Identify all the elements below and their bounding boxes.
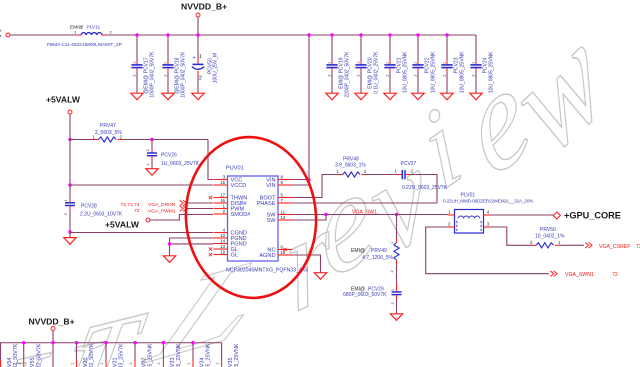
wire PGND pins tie (170, 238, 214, 244)
wire VCCD to +5VALW (70, 184, 213, 186)
svg-text:2: 2 (164, 75, 168, 77)
svg-text:2: 2 (133, 75, 137, 77)
ground of PGND (163, 256, 175, 263)
svg-text:PCV27: PCV27 (401, 161, 417, 167)
svg-text:13: 13 (220, 244, 225, 249)
wire PRV50 to VGA_CSREF (560, 244, 585, 246)
svg-text:3: 3 (223, 174, 226, 179)
svg-text:PLV11: PLV11 (87, 25, 101, 31)
capacitor PCV19 (326, 35, 350, 98)
svg-text:1: 1 (472, 62, 476, 64)
ground of PCV29 (390, 314, 402, 321)
capacitor PCV54 (cut off at bottom edge) (0, 343, 19, 367)
ground of PCV20 (355, 93, 367, 100)
junction at PCV26 (150, 138, 153, 141)
wire terminal to rail (197, 17, 199, 35)
svg-text:+: + (192, 55, 195, 61)
terminal +5VALW lower (146, 218, 150, 222)
capacitor PCV17 (131, 35, 155, 98)
svg-text:72: 72 (134, 208, 140, 214)
capacitor PCV33 (cut off at bottom edge) (157, 343, 182, 367)
capacitor PCV18 (162, 35, 186, 98)
svg-text:PCV30: PCV30 (83, 358, 89, 367)
svg-text:10_0402_1%: 10_0402_1% (535, 233, 565, 239)
svg-text:1: 1 (414, 62, 418, 64)
capacitor PCV34 (cut off at bottom edge) (187, 343, 212, 367)
svg-text:11: 11 (281, 209, 286, 214)
wire AGND to ground (293, 255, 321, 273)
terminal to off-page left (6, 33, 10, 37)
svg-text:8: 8 (281, 174, 284, 179)
svg-text:1: 1 (187, 363, 191, 365)
ground of PCV21 (384, 93, 396, 100)
svg-text:2.2U_0603_10V7K: 2.2U_0603_10V7K (80, 212, 123, 218)
junction at PCV17 (135, 33, 138, 36)
svg-text:PCV35: PCV35 (228, 358, 234, 367)
svg-text:PHASE: PHASE (257, 201, 276, 207)
ground of PCV26 (146, 169, 158, 176)
svg-text:1: 1 (443, 62, 447, 64)
capacitor PCV23 (441, 35, 465, 93)
svg-text:2: 2 (120, 135, 123, 140)
svg-text:4: 4 (487, 210, 490, 215)
svg-text:PCV33: PCV33 (170, 358, 176, 367)
wire NVVDD_B+ rail down to VIN pins (308, 35, 310, 185)
svg-text:SMOD#: SMOD# (231, 212, 252, 218)
annotation red ellipse around PUV01 (181, 133, 322, 303)
svg-text:SW: SW (266, 218, 276, 224)
svg-text:2: 2 (414, 75, 418, 77)
svg-text:1: 1 (215, 363, 219, 365)
svg-text:18: 18 (281, 250, 286, 255)
resistor PRV50 (530, 227, 565, 248)
inductor PLV11 (70, 25, 113, 36)
svg-text:12: 12 (281, 215, 286, 220)
ground of PCV22 (412, 93, 424, 100)
wire +5VALW down 2 (69, 140, 71, 186)
svg-text:2: 2 (530, 240, 533, 245)
svg-text:2: 2 (386, 75, 390, 77)
svg-text:PCV31: PCV31 (112, 358, 118, 367)
junction at PCV21 (388, 33, 391, 36)
wire PLV01 to +GPU_CORE (491, 214, 554, 216)
svg-text:10U_0805_25VNK: 10U_0805_25VNK (488, 51, 494, 93)
svg-text:3.9_0603_1%: 3.9_0603_1% (335, 163, 366, 169)
svg-text:10U_0805_25VNK: 10U_0805_25VNK (459, 51, 465, 93)
svg-text:VGA_PWM1: VGA_PWM1 (148, 208, 176, 214)
junction at NVVDD_B+ tap (196, 33, 199, 36)
svg-text:2: 2 (199, 76, 202, 82)
off-page connector VGA_CSREF (585, 243, 592, 249)
svg-text:9: 9 (281, 180, 284, 185)
terminal NVVDD_B+ bottom (51, 327, 55, 331)
svg-text:PUV01: PUV01 (226, 166, 244, 172)
svg-text:1: 1 (70, 363, 74, 365)
wire net VGA_SW1 (326, 214, 448, 216)
svg-text:10U_0805_25VNK: 10U_0805_25VNK (148, 343, 154, 367)
terminal NVVDD_B+ top (196, 13, 200, 17)
svg-text:1: 1 (157, 363, 161, 365)
junction PGND (168, 242, 171, 245)
junction at PCV31 (104, 341, 107, 344)
terminal +GPU_CORE (diamond) (553, 212, 560, 219)
svg-text:+5VALW: +5VALW (46, 95, 81, 105)
ground of PCV18 (162, 93, 174, 100)
junction at PCV18 (166, 33, 169, 36)
svg-text:10U_0805_25VNK: 10U_0805_25VNK (430, 51, 436, 93)
off-page connector VGA_SWN1 (550, 271, 557, 277)
junction at PCV55 (22, 341, 25, 344)
svg-text:1U_0603_25V7K: 1U_0603_25V7K (119, 343, 125, 367)
svg-text:1: 1 (328, 62, 332, 64)
svg-text:2_0603_5%: 2_0603_5% (95, 130, 122, 136)
wire PHASE (293, 202, 438, 204)
svg-text:72,73,74: 72,73,74 (120, 202, 139, 208)
svg-text:1: 1 (390, 242, 394, 244)
svg-text:NVVDD_B+: NVVDD_B+ (181, 2, 227, 12)
svg-text:17: 17 (220, 192, 225, 197)
svg-text:1: 1 (386, 62, 390, 64)
svg-text:1: 1 (133, 62, 137, 64)
wire rail drop at x53 (52, 343, 54, 367)
off-page connector VGA_DRON (180, 200, 187, 206)
svg-text:0.22UH_MMD-06DZER22MEM2L__32A_: 0.22UH_MMD-06DZER22MEM2L__32A_20% (443, 198, 533, 203)
capacitor PCV26 (146, 140, 200, 169)
op IC U1: regulator PUV01 NCP302045 (209, 166, 293, 262)
wire top NVVDD_B+ rail (106, 34, 476, 36)
junction at PCV30 (75, 341, 78, 344)
svg-text:2: 2 (357, 75, 361, 77)
wire BOOT to PRV48 (293, 175, 339, 198)
svg-text:VIN: VIN (266, 183, 275, 189)
svg-text:GL: GL (231, 253, 238, 259)
ground of PCV24 (470, 93, 482, 100)
svg-text:2: 2 (328, 75, 332, 77)
svg-text:1: 1 (558, 240, 561, 245)
svg-text:72: 72 (636, 244, 640, 250)
wire net VGA_SWN1 (426, 227, 549, 274)
capacitor PCV50 (polarized) (192, 35, 219, 93)
junction at PCV20 (359, 33, 362, 36)
svg-text:0.22U_0603_25V7K: 0.22U_0603_25V7K (402, 185, 448, 191)
svg-text:NCP302045MNTXG_PQFN33_4X5: NCP302045MNTXG_PQFN33_4X5 (226, 267, 308, 273)
resistor PRV47 (93, 123, 123, 142)
junction SW pins (324, 213, 327, 216)
capacitor PCV27 (395, 161, 448, 191)
svg-text:PCV26: PCV26 (161, 152, 177, 158)
svg-text:3: 3 (487, 222, 490, 227)
svg-text:16: 16 (220, 198, 225, 203)
wire CGND ground rail (70, 232, 213, 234)
svg-text:1: 1 (64, 199, 68, 201)
svg-text:1000P_0402_50V7K: 1000P_0402_50V7K (149, 51, 155, 98)
capacitor PCV29 (snubber) (343, 284, 401, 314)
svg-text:2: 2 (472, 75, 476, 77)
junction rail/VIN drop (307, 33, 310, 36)
wire VGA_PWM1 to PWM (187, 208, 214, 210)
wire +5VALW down (69, 114, 71, 139)
junction at PCV23 (445, 33, 448, 36)
svg-text:+5VALW: +5VALW (105, 219, 140, 229)
svg-text:10: 10 (220, 233, 225, 238)
svg-text:2: 2 (391, 302, 395, 304)
svg-text:15: 15 (220, 180, 225, 185)
svg-text:PCV54: PCV54 (7, 358, 13, 367)
capacitor PCV30 (cut off at bottom edge) (70, 343, 95, 367)
capacitor PCV22 (412, 35, 436, 93)
svg-text:1000P_0402_50V7K: 1000P_0402_50V7K (36, 343, 42, 367)
svg-text:VCCD: VCCD (231, 183, 247, 189)
junction ground rail / PCV28 (68, 230, 71, 233)
svg-text:2: 2 (110, 30, 113, 35)
svg-text:EMI@: EMI@ (70, 25, 84, 31)
svg-text:VGA_SW1: VGA_SW1 (352, 209, 377, 215)
junction at PCV19 (330, 33, 333, 36)
capacitor PCV28 (64, 185, 123, 232)
svg-text:1000P_0402_50V7K: 1000P_0402_50V7K (180, 51, 186, 98)
svg-text:2: 2 (390, 270, 394, 272)
wire SW pin 11 (293, 214, 327, 216)
junction +5VALW / VCCD (68, 183, 71, 186)
ground of PCV28/CGND (64, 238, 76, 245)
svg-text:1: 1 (17, 363, 21, 365)
svg-text:PCV28: PCV28 (81, 204, 97, 210)
inductor PLV01 (443, 193, 533, 234)
resistor PRV49 (snubber) (351, 215, 399, 273)
wire SW pin 12 (293, 215, 327, 221)
svg-text:+GPU_CORE: +GPU_CORE (564, 210, 621, 220)
capacitor PCV21 (384, 35, 408, 93)
svg-text:1: 1 (129, 363, 133, 365)
wire PLV01 pin3 to PRV50 (491, 227, 532, 245)
svg-text:10U_0805_25VNK: 10U_0805_25VNK (206, 343, 212, 367)
svg-text:19: 19 (220, 249, 225, 254)
wire terminal to bottom rail (52, 331, 54, 343)
wire PRV47 to VCC (122, 139, 208, 141)
wire PRV48 to PCV27 (366, 174, 398, 176)
svg-text:PCV34: PCV34 (199, 358, 205, 367)
wire to ground (69, 233, 71, 238)
svg-text:C: C (0, 27, 2, 41)
svg-text:1: 1 (223, 203, 226, 208)
junction at PCV34 (191, 341, 194, 344)
svg-text:100U_25V_M: 100U_25V_M (213, 53, 219, 84)
svg-text:10U_0805_25VNK: 10U_0805_25VNK (176, 343, 182, 367)
svg-text:1U_0603_25V7K: 1U_0603_25V7K (161, 161, 200, 167)
wire bottom NVVDD_B+ rail (0, 342, 222, 344)
svg-text:4.7_1206_5%: 4.7_1206_5% (362, 255, 393, 261)
capacitor PCV32 (cut off at bottom edge) (129, 343, 154, 367)
wire VCC feed (208, 140, 213, 180)
wire +5VALW to SMOD# (150, 215, 213, 221)
resistor PRV48 (335, 156, 367, 177)
svg-text:2: 2 (443, 75, 447, 77)
terminal +5VALW upper (68, 110, 72, 114)
capacitor PCV35 (cut off at bottom edge) (215, 343, 240, 367)
svg-text:2200P_0402_50V7K: 2200P_0402_50V7K (344, 51, 350, 98)
svg-text:AGND: AGND (259, 253, 275, 259)
svg-text:1: 1 (100, 363, 104, 365)
wire VGA_DRON to DISB# (187, 202, 214, 204)
svg-text:VGA_CSREF: VGA_CSREF (599, 244, 630, 250)
wire VIN pin 8 (293, 179, 310, 181)
svg-text:1: 1 (391, 289, 395, 291)
svg-text:PRV50: PRV50 (540, 227, 556, 233)
svg-text:PRV49: PRV49 (371, 248, 387, 254)
ground of PCV17 (131, 93, 143, 100)
svg-text:FBMA-L11-452215800LMA90T_2P: FBMA-L11-452215800LMA90T_2P (47, 42, 122, 48)
junction at PCV22 (416, 33, 419, 36)
svg-text:1000P_0402_50V7K: 1000P_0402_50V7K (89, 343, 95, 367)
ground of AGND (314, 273, 326, 280)
wire PGND to ground (169, 244, 171, 256)
svg-text:10U_0805_25VNK: 10U_0805_25VNK (234, 343, 240, 367)
junction at NVVDD_B+ bottom tap (51, 341, 54, 344)
svg-text:PCV32: PCV32 (141, 358, 147, 367)
svg-text:14: 14 (220, 238, 225, 243)
capacitor PCV55 (cut off at bottom edge) (17, 343, 42, 367)
svg-text:10U_0805_25VNK: 10U_0805_25VNK (402, 51, 408, 93)
svg-text:1: 1 (199, 54, 202, 60)
svg-text:PRV48: PRV48 (343, 156, 359, 162)
junction at VIN pin 8 (307, 178, 310, 181)
svg-text:PRV47: PRV47 (100, 123, 116, 129)
wire PRV49 to PCV29 (396, 265, 398, 284)
svg-text:VGA_SWN1: VGA_SWN1 (565, 272, 594, 278)
svg-text:1: 1 (146, 163, 150, 165)
svg-text:1: 1 (164, 62, 168, 64)
svg-text:0.1U_0402_25V7K: 0.1U_0402_25V7K (373, 51, 379, 94)
svg-text:1: 1 (357, 62, 361, 64)
ground of PCV23 (441, 93, 453, 100)
wire PCV27 to PHASE (409, 175, 437, 204)
svg-text:EMI@: EMI@ (351, 248, 365, 254)
wire to PRV47 (70, 139, 94, 141)
junction +5VALW / PRV47 (68, 138, 71, 141)
capacitor PCV31 (cut off at bottom edge) (100, 343, 125, 367)
ground of PCV19 (326, 93, 338, 100)
svg-text:NVVDD_B+: NVVDD_B+ (29, 317, 75, 327)
svg-text:2: 2 (64, 213, 68, 215)
junction VGA_SW1 / snubber (395, 213, 398, 216)
svg-text:2: 2 (146, 149, 150, 151)
junction at PCV32 (133, 341, 136, 344)
wire from terminal to PLV11 (10, 34, 77, 36)
capacitor PCV20 (355, 35, 379, 94)
svg-text:72: 72 (612, 272, 618, 278)
wire VIN pin 9 (293, 184, 310, 186)
svg-text:4: 4 (223, 227, 226, 232)
capacitor PCV24 (470, 35, 494, 93)
svg-text:PCV55: PCV55 (30, 358, 36, 367)
off-page connector VGA_PWM1 (180, 206, 187, 212)
ground of PCV50 (192, 93, 204, 100)
svg-text:2: 2 (223, 209, 226, 214)
junction at PCV33 (162, 341, 165, 344)
svg-text:2: 2 (448, 222, 451, 227)
svg-text:680P_0603_50V7K: 680P_0603_50V7K (343, 292, 387, 298)
svg-text:VGA_DRON: VGA_DRON (148, 202, 176, 208)
